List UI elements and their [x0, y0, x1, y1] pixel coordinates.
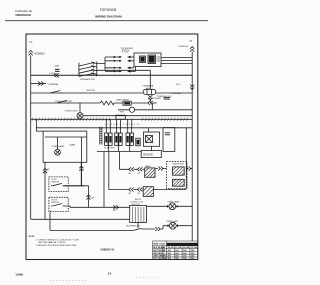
- wire drop x36.4: [36, 119, 43, 131]
- wire row 115.7 to N: [83, 115, 192, 117]
- svg-text:105: 105: [183, 250, 187, 252]
- wire riser to lamp2: [160, 226, 169, 229]
- scan artifact dots: [50, 277, 160, 281]
- wire inside cavity: [45, 137, 87, 162]
- svg-text:18 GA: 18 GA: [168, 246, 174, 249]
- resistor zigzag: [100, 101, 114, 105]
- wire cavity down left: [44, 162, 46, 219]
- lock switch contacts: [51, 183, 64, 185]
- svg-text:SWITCH: SWITCH: [51, 182, 59, 184]
- svg-text:200: 200: [183, 253, 187, 255]
- svg-text:L1: L1: [29, 40, 33, 44]
- svg-text:10/96: 10/96: [15, 273, 23, 277]
- wire line A: [31, 218, 130, 220]
- door lock motor box: [130, 206, 147, 229]
- legend table: [153, 241, 198, 260]
- label door lock motor: [131, 202, 144, 206]
- svg-text:R: R: [163, 253, 165, 255]
- svg-text:2. REPLACE ONLY. A BLUE WIRE: 2. REPLACE ONLY. A BLUE WIRE IF ALL USED: [36, 244, 78, 247]
- dashed box right chevron: [186, 167, 191, 171]
- lamp cavity: [55, 149, 61, 155]
- broil row chevrons pair 1: [129, 188, 134, 192]
- wire motor row to N: [118, 109, 192, 111]
- surface unit switch stack SW1-SW4: [79, 62, 97, 77]
- wire bake feed: [118, 152, 120, 170]
- wire relay connections: [149, 128, 152, 151]
- svg-text:MOTOR: MOTOR: [87, 90, 96, 92]
- plunger switch blade: [133, 228, 155, 230]
- fuse F1 marks: [55, 69, 60, 71]
- door switch contacts: [51, 204, 64, 206]
- wires EOC to N: [161, 58, 192, 64]
- terminal N: [190, 47, 194, 52]
- heater rect lower: [173, 179, 185, 186]
- svg-text:5995264246: 5995264246: [15, 13, 31, 17]
- wire collector to burner switches: [97, 57, 113, 71]
- wire x88.5 with connector: [88, 195, 90, 207]
- burner switch contacts row 3: [113, 66, 134, 69]
- svg-text:RED RED: RED RED: [153, 253, 163, 255]
- svg-text:WIRING DIAGRAM: WIRING DIAGRAM: [95, 15, 122, 19]
- relay contact box: [123, 101, 131, 105]
- wire cavity down right bold: [80, 162, 82, 186]
- connector on x88.5: [87, 195, 91, 200]
- oven cavity box: [43, 131, 87, 162]
- terminal L1: [29, 50, 33, 55]
- lamp circle 1: [168, 203, 178, 210]
- svg-text:* TERMINAL: * TERMINAL: [170, 92, 182, 95]
- heater rect upper: [173, 167, 185, 175]
- svg-text:SURFACE SW: SURFACE SW: [80, 78, 95, 81]
- svg-text:YEL YELLOW: YEL YELLOW: [153, 258, 166, 260]
- oven lamp branch: [79, 103, 81, 113]
- svg-text:* TERMINAL: * TERMINAL: [47, 83, 59, 86]
- svg-text:SWITCH: SWITCH: [51, 202, 59, 204]
- bus line 1 with ticks: [31, 118, 193, 121]
- burner switch contacts row 2: [113, 59, 134, 62]
- svg-text:• 1 2 3 4 •: • 1 2 3 4 •: [121, 52, 129, 54]
- connector on wire x81.4: [79, 166, 83, 171]
- connector bump on bus: [116, 115, 125, 119]
- bake right chevrons: [158, 167, 163, 171]
- svg-text:WHT WHITE: WHT WHITE: [153, 250, 165, 252]
- svg-text:BROIL: BROIL: [135, 199, 142, 201]
- svg-text:105: 105: [168, 250, 172, 252]
- svg-text:LAMP: LAMP: [69, 144, 75, 147]
- wire lock to bold: [64, 185, 84, 187]
- wire line B: [50, 230, 133, 232]
- svg-text:FGF353CB: FGF353CB: [100, 8, 117, 12]
- lock switch dashed box: [49, 177, 68, 192]
- svg-text:GLASS HTR: GLASS HTR: [173, 162, 185, 165]
- svg-text:200: 200: [191, 253, 195, 255]
- relay box K1: [144, 132, 160, 146]
- label above plug: [141, 85, 154, 90]
- oven light switch: [57, 100, 69, 103]
- connector below plug: [148, 95, 152, 100]
- svg-text:1. CONNECT WIRE A TO L1, DISCO: 1. CONNECT WIRE A TO L1, DISCON. AT * N …: [36, 238, 80, 241]
- svg-text:RED/BLK: RED/BLK: [35, 53, 46, 56]
- wire oven light row: [31, 102, 157, 104]
- connector on N wire: [190, 85, 194, 90]
- svg-text:BK: BK: [47, 169, 50, 171]
- label oven lamp: [52, 144, 76, 149]
- label top burner switches: [121, 48, 134, 54]
- svg-text:BK: BK: [129, 173, 132, 175]
- wire dashed box to N: [191, 168, 192, 170]
- wire row to plug: [31, 92, 193, 94]
- notes block: [29, 236, 80, 247]
- svg-text:12 GA: 12 GA: [191, 246, 197, 249]
- plug unit B: [115, 119, 123, 151]
- svg-text:OVEN LAMP: OVEN LAMP: [52, 145, 65, 148]
- wire N vertical: [191, 52, 193, 241]
- svg-text:200: 200: [168, 253, 172, 255]
- connector pair on door line: [113, 205, 118, 209]
- svg-text:NOTE:: NOTE:: [29, 236, 35, 238]
- bus line 2: [36, 127, 192, 129]
- bake row chevrons pair 2: [138, 167, 143, 171]
- svg-text:RD: RD: [138, 193, 141, 195]
- terminal spade: [38, 81, 44, 85]
- wire door feed: [103, 152, 105, 208]
- svg-text:BK: BK: [92, 197, 95, 199]
- oven control box EOC: [134, 53, 161, 67]
- wire collector line: [97, 151, 141, 153]
- svg-text:BK: BK: [113, 210, 116, 212]
- bake row chevrons pair 1: [129, 167, 134, 171]
- oven sensor box: [141, 151, 161, 158]
- svg-text:200: 200: [175, 253, 179, 255]
- svg-text:AND USE SAME GA. COPPER: AND USE SAME GA. COPPER: [39, 241, 66, 244]
- svg-text:BLK BLACK: BLK BLACK: [153, 246, 165, 249]
- plug P3 oval: [143, 89, 156, 94]
- svg-text:SENSOR: SENSOR: [143, 155, 153, 157]
- wire main line L1 feed: [31, 74, 193, 76]
- svg-text:OVEN LIGHT: OVEN LIGHT: [65, 111, 79, 113]
- broil row chevrons pair 2: [138, 188, 143, 192]
- connector strip P1: [100, 127, 102, 145]
- label BK bake: [129, 173, 141, 175]
- wire broil row: [109, 189, 187, 191]
- dashed component box: [167, 162, 188, 189]
- svg-text:N: N: [190, 39, 192, 43]
- lamp circle 2: [168, 222, 178, 229]
- wire lamp2 to N: [176, 225, 192, 227]
- svg-text:P2 P3 P4 P5: P2 P3 P4 P5: [104, 148, 115, 150]
- wire L1 vertical: [30, 55, 32, 219]
- wire x50 down: [49, 211, 51, 230]
- motor M circle: [129, 107, 134, 112]
- wire upper feed line: [97, 70, 151, 89]
- label lock switch: [51, 179, 59, 183]
- svg-text:1 2 3 4 5 6 7 8 9 10 11: 1 2 3 4 5 6 7 8 9 10 11: [105, 124, 141, 126]
- svg-text:MTR: MTR: [120, 111, 125, 113]
- svg-text:16 GA: 16 GA: [175, 246, 181, 249]
- svg-text:WIRE CODE: WIRE CODE: [153, 243, 165, 245]
- plug unit A: [105, 119, 113, 151]
- svg-text:BROIL RELAY: BROIL RELAY: [148, 97, 162, 100]
- svg-text:PLUNGER SW: PLUNGER SW: [126, 226, 140, 228]
- wire drop x152.3: [150, 100, 152, 110]
- svg-text:RD: RD: [138, 173, 141, 175]
- plug unit D: [136, 138, 140, 146]
- connector on wire x45: [43, 168, 47, 173]
- schematic frame: [26, 34, 198, 260]
- ground marks near N: [164, 97, 171, 99]
- svg-text:316B023 43: 316B023 43: [100, 248, 114, 251]
- header rule: [5, 20, 208, 22]
- lamp oven light: [77, 113, 83, 119]
- svg-text:TERM BLK: TERM BLK: [178, 46, 189, 48]
- svg-text:14 GA: 14 GA: [183, 246, 189, 249]
- svg-text:MAX: MAX: [55, 64, 60, 67]
- label door switch: [51, 200, 59, 204]
- label BK broil: [129, 193, 141, 195]
- wire lamp1: [147, 205, 193, 207]
- svg-text:N L1: N L1: [176, 84, 181, 86]
- table cell text: [153, 243, 197, 260]
- wire broil mid feed: [108, 152, 110, 190]
- plug unit C: [126, 119, 134, 151]
- wire x186.3 vertical: [185, 128, 187, 189]
- svg-text:OVEN LIGHT SW: OVEN LIGHT SW: [55, 101, 73, 103]
- chevrons on row: [148, 101, 153, 105]
- wire stub with terminal: [31, 83, 46, 85]
- svg-text:105: 105: [175, 250, 179, 252]
- burner switch contacts row 4: [113, 67, 136, 73]
- bake element hatched: [145, 168, 155, 177]
- connector pair after plunger: [155, 227, 160, 231]
- wire bake row: [119, 168, 166, 171]
- svg-text:BK: BK: [129, 193, 132, 195]
- fuse symbol on main line: [54, 73, 59, 77]
- broil element hatched: [143, 187, 153, 197]
- door switch dashed box: [49, 197, 68, 211]
- component box right: [163, 128, 175, 152]
- burner switch contacts row 1: [113, 56, 134, 59]
- wire door switch row: [64, 206, 130, 207]
- header publication number: [15, 9, 33, 17]
- wire bold junction: [81, 186, 88, 195]
- svg-text:105: 105: [191, 250, 195, 252]
- switch on row: [50, 91, 62, 93]
- svg-text:14: 14: [108, 272, 112, 276]
